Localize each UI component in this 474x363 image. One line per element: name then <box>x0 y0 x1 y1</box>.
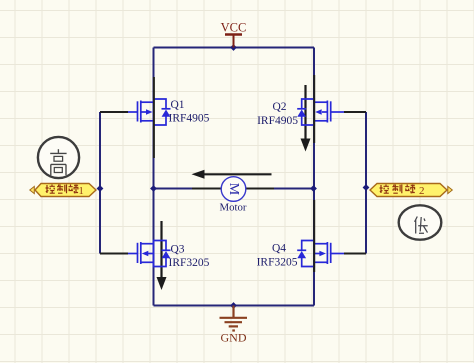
svg-text:GND: GND <box>221 331 247 345</box>
svg-text:IRF3205: IRF3205 <box>169 257 210 269</box>
svg-text:Q2: Q2 <box>272 101 286 113</box>
svg-text:IRF4905: IRF4905 <box>169 113 210 125</box>
svg-text:Motor: Motor <box>220 202 247 214</box>
svg-text:Q4: Q4 <box>272 243 286 255</box>
svg-text:2: 2 <box>419 185 425 197</box>
svg-text:IRF3205: IRF3205 <box>257 257 298 269</box>
svg-text:Q3: Q3 <box>171 244 185 256</box>
svg-text:1: 1 <box>79 186 84 197</box>
svg-text:M: M <box>226 183 241 196</box>
svg-text:IRF4905: IRF4905 <box>257 115 298 127</box>
svg-text:VCC: VCC <box>221 21 247 35</box>
svg-text:Q1: Q1 <box>171 99 185 111</box>
